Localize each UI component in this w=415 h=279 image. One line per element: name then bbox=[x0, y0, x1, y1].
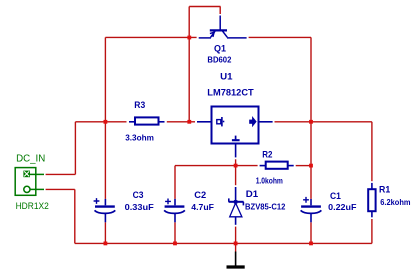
wire vertical x=105 top rail corner down to R3 row bbox=[104, 37, 106, 121]
wire vertical x=373 R1 bottom to rail bbox=[371, 219, 373, 243]
svg-text:Q1: Q1 bbox=[214, 44, 227, 55]
capacitor C3 bbox=[94, 198, 116, 222]
svg-text:6.2kohm: 6.2kohm bbox=[380, 197, 411, 207]
wire R3 row left segment bbox=[75, 121, 126, 123]
svg-text:R2: R2 bbox=[262, 150, 272, 161]
wire C3 branch upper bbox=[104, 122, 106, 199]
junction at base/E crossing bbox=[187, 36, 191, 40]
capacitor C1 bbox=[301, 197, 322, 222]
junction bottom rail C1 bbox=[309, 242, 313, 246]
wire C3 branch lower bbox=[104, 222, 106, 243]
wire D1 cathode red segment bbox=[235, 166, 237, 185]
wire top rail right segment y=37.4 bbox=[249, 36, 311, 38]
svg-text:3.3ohm: 3.3ohm bbox=[125, 132, 154, 142]
svg-text:4.7uF: 4.7uF bbox=[191, 202, 214, 212]
svg-text:C3: C3 bbox=[133, 190, 144, 201]
svg-text:R1: R1 bbox=[379, 184, 391, 195]
wire D1 anode red segment bbox=[235, 227, 237, 244]
svg-text:C1: C1 bbox=[330, 191, 342, 202]
ground bbox=[227, 252, 245, 268]
svg-text:C2: C2 bbox=[194, 190, 206, 201]
diode D1 zener bbox=[229, 187, 244, 225]
svg-text:1.0kohm: 1.0kohm bbox=[256, 176, 283, 186]
junction bottom rail C2 bbox=[173, 242, 177, 246]
junction bottom rail ground bbox=[234, 242, 238, 246]
wire vertical x=74.8 pin2 down to bottom rail bbox=[74, 189, 76, 243]
wire ground stem red bbox=[235, 243, 237, 251]
connector DC_IN (HDR1X2, pin 1 square-X, pin 2 circle) bbox=[15, 168, 44, 196]
wire vertical x=75.4 from R3 row down to DC_IN pin1 bbox=[74, 122, 76, 175]
junction at x=189 U1 input row bbox=[187, 120, 191, 124]
junction bottom rail C3 bbox=[104, 242, 108, 246]
wire U1 gnd red segment bbox=[235, 159, 237, 165]
svg-text:R3: R3 bbox=[134, 100, 145, 111]
resistor R2 bbox=[260, 162, 294, 169]
wire top loop horizontal (base to input net) bbox=[189, 6, 220, 8]
resistor R3 bbox=[129, 117, 165, 124]
wire vertical x=373 output to R1 top bbox=[371, 122, 373, 181]
svg-text:0.22uF: 0.22uF bbox=[328, 202, 356, 212]
svg-text:BZV85-C12: BZV85-C12 bbox=[245, 202, 286, 211]
voltage regulator U1 (box with input/output/ground pin symbols) bbox=[197, 107, 273, 158]
svg-text:LM7812CT: LM7812CT bbox=[207, 88, 254, 98]
wire vertical x=311 C1 bottom to rail bbox=[310, 222, 312, 243]
junction at x=311 output row bbox=[309, 120, 313, 124]
resistor R1 bbox=[368, 183, 375, 217]
junction at x=311 R2 row bbox=[309, 164, 313, 168]
wire C2 row horizontal to U1 gnd column bbox=[175, 165, 236, 167]
junction at x=105 R3 row bbox=[104, 120, 108, 124]
svg-text:D1: D1 bbox=[246, 189, 259, 200]
svg-text:U1: U1 bbox=[220, 72, 233, 83]
svg-text:0.33uF: 0.33uF bbox=[125, 202, 154, 212]
wire C2 branch upper bbox=[174, 166, 176, 199]
svg-text:BD602: BD602 bbox=[207, 55, 231, 65]
wire base drop red part bbox=[219, 7, 221, 15]
wire vertical x=189 from top loop to U1 input row bbox=[188, 7, 190, 122]
svg-text:HDR1X2: HDR1X2 bbox=[16, 201, 49, 211]
wire top rail left segment y=37.4 bbox=[105, 36, 196, 38]
wire vertical x=311 top rail down to C1 bbox=[310, 37, 312, 199]
wire C2 branch lower bbox=[174, 222, 176, 243]
svg-text:DC_IN: DC_IN bbox=[16, 153, 45, 164]
transistor Q1 bbox=[199, 16, 247, 38]
wire DC_IN pin2 horizontal bbox=[46, 188, 75, 190]
wire bottom rail y=243.4 bbox=[75, 242, 372, 244]
junction at U1 gnd / R2 row bbox=[234, 164, 238, 168]
wire R2 right red segment bbox=[296, 165, 311, 167]
wire DC_IN pin1 horizontal bbox=[46, 173, 76, 175]
wire R2 left red segment bbox=[236, 165, 258, 167]
wire U1 output row red bbox=[275, 121, 372, 123]
wire R3 row right segment to U1 input bbox=[167, 121, 195, 123]
capacitor C2 bbox=[164, 199, 185, 223]
